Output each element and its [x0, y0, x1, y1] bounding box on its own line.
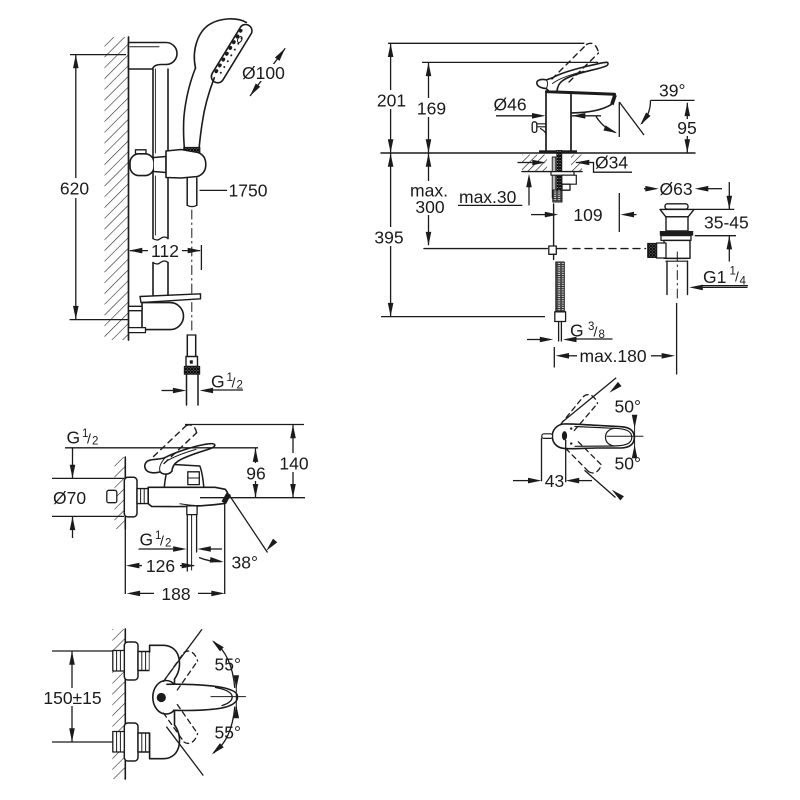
shower handle	[184, 68, 196, 148]
pop-up lift rod knob	[532, 122, 537, 133]
svg-text:38°: 38°	[232, 553, 258, 573]
svg-text:169: 169	[417, 99, 446, 119]
svg-text:Ø63: Ø63	[660, 179, 693, 199]
hand shower face plate	[211, 24, 252, 82]
svg-text:300: 300	[415, 197, 444, 217]
mounting washer and nut	[551, 172, 574, 176]
pop-up waste cap	[665, 204, 688, 209]
extension line lever top	[422, 61, 598, 63]
dimension 43	[541, 438, 543, 482]
deck cross-section hatch	[522, 155, 547, 172]
lever dome	[153, 681, 179, 715]
label diameter 100	[250, 48, 285, 96]
svg-text:/: /	[232, 375, 236, 391]
detail dots	[570, 427, 572, 429]
pop-up waste flange	[660, 209, 694, 216]
svg-text:max.180: max.180	[580, 346, 647, 366]
svg-text:Ø46: Ø46	[494, 95, 527, 115]
rail top bracket	[129, 43, 178, 70]
crosshair	[211, 696, 246, 698]
lever raised (dashed)	[164, 651, 198, 690]
svg-text:620: 620	[60, 179, 89, 199]
lower escutcheon	[124, 723, 138, 761]
lever blade front	[167, 684, 238, 710]
lower union nut	[138, 733, 150, 752]
pop-up body step	[666, 258, 688, 260]
pop-up side inlet	[657, 243, 667, 258]
union nut	[137, 489, 148, 504]
dimension max300 line	[428, 153, 430, 245]
dimensions of basin mixer	[381, 43, 598, 316]
svg-text:140: 140	[279, 454, 308, 474]
lever raised 50deg (dashed)	[561, 395, 598, 431]
svg-text:/: /	[594, 324, 598, 340]
housing side knob	[188, 472, 200, 485]
pop-up waste neck	[666, 217, 688, 231]
hose centreline (dash-dot)	[191, 210, 193, 334]
lever handle (solid)	[145, 444, 215, 475]
spout top slab	[547, 92, 615, 95]
svg-text:/: /	[87, 431, 91, 447]
pop-up seal ring	[660, 231, 693, 236]
svg-text:G: G	[67, 428, 81, 448]
label 1750	[200, 189, 228, 191]
svg-text:201: 201	[377, 91, 406, 111]
set-screw pin	[542, 434, 553, 439]
svg-text:max.30: max.30	[459, 187, 517, 207]
wall line	[124, 629, 126, 779]
pop-up knurled knob	[648, 244, 657, 258]
blade width arrows	[234, 675, 240, 689]
svg-text:395: 395	[374, 228, 403, 248]
svg-text:50°: 50°	[615, 454, 641, 474]
lever handle raised (dashed)	[154, 425, 197, 464]
hose lower end	[186, 335, 188, 357]
faucet body column	[545, 92, 547, 150]
mixer body cylinder	[148, 487, 227, 506]
svg-text:2: 2	[92, 436, 98, 448]
lever handle (solid)	[537, 62, 608, 91]
svg-text:55°: 55°	[215, 655, 241, 675]
dimension 96	[255, 448, 257, 497]
lever blade inner line	[575, 427, 632, 447]
svg-text:35-45: 35-45	[704, 213, 749, 233]
dimension 150 plus-minus 15	[52, 650, 114, 652]
label diameter 34	[518, 162, 533, 164]
spout underside curve	[180, 504, 224, 506]
mixer body front	[150, 645, 180, 758]
logo spot	[157, 693, 166, 702]
lower 50 degree annotation	[585, 470, 616, 497]
hose coupling knurl G1/2	[184, 367, 199, 375]
svg-text:G1: G1	[703, 267, 726, 287]
upper 55 degree annotation	[164, 629, 202, 680]
svg-text:2: 2	[165, 538, 171, 550]
dimension diameter 70	[72, 448, 74, 478]
svg-text:95: 95	[677, 118, 696, 138]
upper union nut	[138, 652, 150, 671]
wall line	[124, 457, 126, 529]
svg-text:150±15: 150±15	[43, 688, 101, 708]
hand shower head dome	[194, 19, 246, 68]
hose end tube G3/8	[558, 322, 560, 342]
dimension 112	[130, 245, 201, 270]
aerator face	[610, 94, 617, 105]
dimension 140	[185, 424, 304, 426]
rail bottom bracket soap dish	[140, 294, 201, 303]
wall hatch	[112, 629, 125, 779]
wall line	[128, 37, 130, 340]
svg-text:96: 96	[246, 464, 265, 484]
svg-text:39°: 39°	[659, 81, 685, 101]
pop-up tail pipe G1 1/4	[666, 261, 668, 294]
shower hose upper	[186, 178, 188, 205]
pipe nut behind wall	[107, 490, 117, 502]
svg-text:112: 112	[151, 241, 179, 261]
upper hex nut	[113, 651, 125, 672]
spout underside	[572, 105, 612, 113]
spray face dots	[214, 28, 243, 74]
logo spot	[562, 431, 567, 440]
svg-text:1750: 1750	[229, 181, 268, 201]
pop-up centreline	[676, 252, 678, 302]
supply hose braid lower	[556, 262, 565, 312]
extension line lever top dashed position	[388, 42, 584, 44]
rail slider holder	[136, 150, 147, 154]
shower hose connection below	[187, 506, 197, 515]
wall escutcheon rosette	[124, 477, 137, 517]
supply hose braid upper	[553, 190, 562, 202]
svg-text:55°: 55°	[215, 723, 241, 743]
faucet base plate	[539, 150, 577, 153]
upper escutcheon	[124, 642, 138, 680]
threaded shank below deck	[552, 157, 556, 198]
counter line	[381, 152, 695, 154]
shower rail	[152, 69, 154, 239]
label diameter 63	[644, 188, 646, 190]
wall hatch	[105, 37, 129, 340]
dimension 109	[531, 214, 546, 216]
wall hatch	[115, 457, 126, 529]
pop-up valve body	[661, 236, 691, 241]
dimension max.180	[553, 347, 555, 368]
svg-text:50°: 50°	[615, 397, 641, 417]
svg-text:126: 126	[146, 556, 175, 576]
svg-text:Ø70: Ø70	[53, 488, 86, 508]
lever knob and blade outline	[552, 424, 634, 449]
38 degree annotation	[230, 496, 268, 553]
dimension 169 line	[428, 63, 430, 153]
handle knurl nut	[184, 148, 200, 159]
crosshair	[607, 435, 643, 437]
lever lowered 50deg (dashed)	[566, 442, 602, 473]
lever width arrows	[632, 415, 638, 429]
svg-text:G: G	[570, 321, 584, 341]
svg-text:188: 188	[161, 584, 190, 604]
lever lowered (dashed)	[164, 705, 198, 744]
lower 55 degree annotation	[166, 727, 203, 776]
dimension 35-45	[694, 208, 734, 210]
extension line hose end	[381, 316, 545, 318]
pop-up lift rod	[553, 204, 555, 246]
svg-text:/: /	[735, 269, 739, 285]
dimension 188	[130, 592, 154, 594]
wall line extension	[124, 529, 126, 594]
lever handle raised (dashed)	[552, 43, 599, 82]
dimension 395 line	[390, 153, 392, 316]
lower hex nut	[113, 732, 125, 753]
svg-text:Ø34: Ø34	[595, 153, 628, 173]
lever inner end radius	[606, 428, 615, 446]
dimension 201 line	[390, 44, 392, 153]
svg-text:G: G	[140, 530, 154, 550]
dimension 126	[130, 565, 142, 567]
cartridge housing	[164, 464, 204, 487]
svg-text:/: /	[160, 533, 164, 549]
dimension 95	[686, 103, 688, 153]
upper 50 degree annotation	[562, 378, 616, 423]
svg-text:109: 109	[573, 205, 602, 225]
pivot detail ellipse	[236, 36, 243, 44]
aerator face	[222, 492, 231, 504]
svg-text:43: 43	[545, 471, 564, 491]
svg-text:Ø100: Ø100	[242, 63, 285, 83]
pop-up crossbar rod	[424, 248, 547, 250]
dimension 620	[70, 55, 128, 320]
